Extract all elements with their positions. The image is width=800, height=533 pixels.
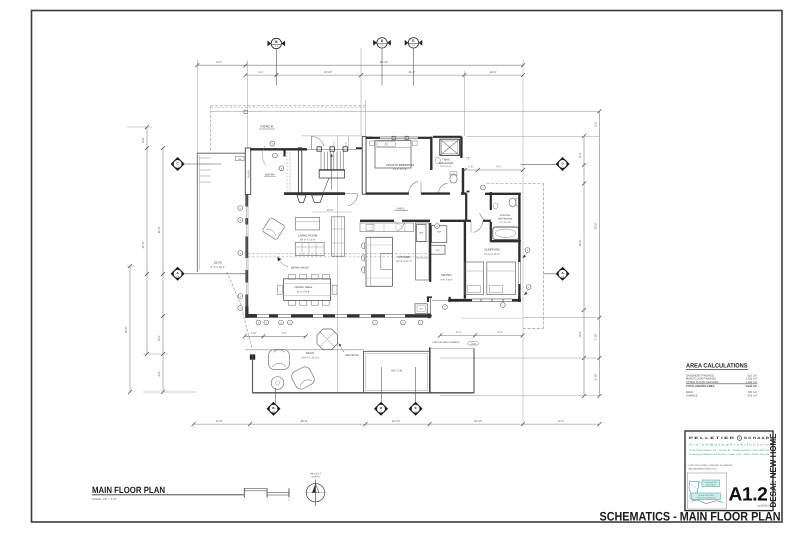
svg-text:2'-6": 2'-6" [468, 166, 473, 169]
hall door arcs [397, 221, 404, 231]
right extension horizontals [467, 135, 599, 137]
section line x337 [336, 135, 338, 393]
deck bottom edge [253, 392, 475, 394]
beams above note [279, 260, 289, 268]
spa octagon [317, 329, 338, 350]
stamp box with washington map [688, 473, 727, 509]
svg-text:29'-8": 29'-8" [301, 420, 308, 423]
svg-text:18'-0" X 13'-0": 18'-0" X 13'-0" [300, 239, 316, 242]
svg-text:PROJECT: PROJECT [310, 472, 321, 475]
svg-text:PANTRY: PANTRY [441, 274, 452, 277]
bath sink [493, 203, 498, 209]
svg-text:7'-0" X 5'-10": 7'-0" X 5'-10" [499, 221, 511, 224]
corridor west wall [465, 194, 467, 221]
left extension stubs [127, 126, 152, 128]
svg-text:3,094 S.F.: 3,094 S.F. [745, 385, 757, 388]
grid bubble C left [171, 157, 185, 171]
svg-text:40'-10": 40'-10" [380, 61, 388, 64]
third bathroom door arc [438, 183, 447, 193]
bottom dimension line [194, 423, 600, 425]
svg-text:LIVING ROOM: LIVING ROOM [298, 233, 318, 237]
svg-text:14'-10": 14'-10" [392, 420, 400, 423]
grid bubble E bottom [415, 367, 417, 403]
south dim string left [245, 335, 306, 337]
grid bubble E top [413, 48, 415, 86]
beams above dashed pair [248, 253, 430, 255]
fourth bedroom north wall [366, 137, 380, 139]
stacked washer dryer [415, 304, 427, 314]
svg-text:2'-2": 2'-2" [333, 141, 336, 146]
sunroom upper dim line [465, 169, 523, 171]
svg-text:W-10: W-10 [471, 342, 475, 345]
svg-text:19'-6": 19'-6" [490, 71, 497, 74]
kitchen counter strip [416, 223, 429, 280]
top dimension line 1 [197, 64, 523, 66]
svg-text:4'-10": 4'-10" [595, 374, 598, 381]
svg-text:HOT TUB: HOT TUB [391, 369, 403, 372]
stair south wall [284, 192, 345, 195]
pantry door jamb and leaf [427, 297, 429, 302]
grid bubble B bottom [275, 388, 277, 403]
svg-text:1,292 S.F.: 1,292 S.F. [745, 381, 757, 384]
kitchen north counter band [360, 223, 414, 232]
living room sofa upper [295, 218, 319, 230]
svg-text:DESAI: NEW HOME: DESAI: NEW HOME [768, 433, 778, 507]
entry door arc [311, 136, 313, 149]
sunroom beds [465, 262, 484, 295]
dining table [284, 279, 331, 301]
svg-text:BATHROOM: BATHROOM [498, 218, 512, 221]
svg-text:14'-4" X 5'-8": 14'-4" X 5'-8" [297, 290, 310, 293]
svg-text:4'-6": 4'-6" [158, 371, 161, 376]
svg-text:MAIN FLOOR PLAN: MAIN FLOOR PLAN [92, 485, 165, 495]
svg-text:2.1: 2.1 [380, 410, 382, 413]
svg-text:KITCHEN: KITCHEN [398, 255, 411, 259]
left lower dimension x163 [162, 354, 164, 392]
svg-text:20'-8": 20'-8" [595, 223, 598, 230]
svg-text:PORCH: PORCH [260, 125, 273, 129]
hall south wall segments [360, 220, 394, 222]
svg-text:9'-2": 9'-2" [497, 166, 502, 169]
svg-text:FOURTH BEDROOM: FOURTH BEDROOM [386, 163, 414, 167]
tag circles sunroom area [443, 305, 448, 310]
third bathroom toilet [450, 174, 457, 183]
svg-text:GARAGE: GARAGE [686, 394, 698, 397]
svg-text:HALL: HALL [397, 206, 406, 210]
stair west wall [298, 148, 301, 194]
svg-text:(29'-4" X 19'-4"): (29'-4" X 19'-4") [301, 357, 319, 360]
porch step tag [236, 156, 245, 161]
top dimension line 2 [246, 74, 524, 76]
svg-text:SPA ABOVE: SPA ABOVE [345, 354, 359, 357]
stair run arrow [331, 155, 333, 190]
hot tub box [364, 351, 430, 393]
entry west wall / foyer [245, 148, 250, 195]
svg-text:DECK: DECK [306, 351, 314, 355]
south wall window tags [256, 320, 261, 325]
svg-text:SCALE: 1/8" = 1'-0": SCALE: 1/8" = 1'-0" [92, 497, 116, 501]
svg-text:BATHROOM: BATHROOM [439, 162, 453, 165]
svg-text:V i s i o n B a s e d A r: V i s i o n B a s e d A r c h i t e c t … [689, 443, 770, 447]
right dimension line x584 [583, 136, 585, 396]
stair east wall / bedroom west wall [362, 137, 366, 195]
stair handrail [320, 170, 346, 172]
deck armchair 2 [290, 365, 317, 391]
svg-text:16'-8": 16'-8" [579, 240, 582, 247]
sunroom dim line [440, 335, 523, 337]
kitchen fridge [417, 225, 427, 242]
svg-text:12'-2": 12'-2" [558, 420, 565, 423]
deck corner post [250, 355, 255, 360]
sunroom north walls [485, 193, 521, 195]
svg-text:2.1: 2.1 [561, 165, 563, 168]
grid bubble A left [171, 267, 185, 281]
svg-text:8'-6" X 5'-6": 8'-6" X 5'-6" [440, 165, 452, 168]
svg-text:NORTH: NORTH [311, 475, 319, 478]
svg-text:E: E [415, 406, 417, 410]
deck top boundary line [245, 349, 364, 351]
svg-text:8'-0": 8'-0" [158, 335, 161, 340]
fourth bedroom east wall [430, 137, 432, 170]
svg-text:6'-0": 6'-0" [579, 331, 582, 336]
svg-text:SUNROOM: SUNROOM [484, 248, 500, 252]
west wall window tags [238, 206, 243, 211]
svg-text:1'-10": 1'-10" [250, 332, 256, 335]
bath south wall [433, 192, 450, 194]
tag circle sunroom east [525, 248, 530, 253]
grid bubble A right [556, 267, 570, 281]
svg-text:2.1: 2.1 [561, 275, 563, 278]
svg-text:14'-2": 14'-2" [125, 327, 128, 334]
entry north wall [250, 148, 307, 150]
tag hall [435, 224, 440, 229]
top extension line y111 [211, 110, 599, 112]
stamp signature squiggle [692, 500, 723, 503]
tag circle bath corridor [481, 185, 486, 190]
kitchen island stools [361, 243, 364, 249]
svg-text:16: 16 [288, 498, 290, 501]
deck round table [271, 377, 284, 390]
third bathroom shower [440, 139, 460, 155]
stair treads [320, 152, 322, 171]
left dimension line x163 [162, 148, 164, 354]
svg-text:SCHEMATICS - MAIN FLOOR PLAN: SCHEMATICS - MAIN FLOOR PLAN [600, 509, 781, 523]
svg-text:21'-2": 21'-2" [409, 71, 416, 74]
porch posts on colonnade [307, 148, 356, 150]
svg-text:2.1: 2.1 [176, 165, 178, 168]
svg-text:2.1: 2.1 [176, 275, 178, 278]
svg-text:DINING TABLE: DINING TABLE [295, 286, 313, 289]
svg-text:UPPER FLOOR FINISHED: UPPER FLOOR FINISHED [686, 381, 719, 384]
graphic scale bar [244, 488, 267, 490]
extension line x523 [522, 60, 524, 424]
media unit [331, 217, 344, 256]
grid bubble D right [556, 157, 570, 171]
fourth bathroom tub [493, 227, 519, 240]
sunroom east wall [518, 194, 520, 262]
svg-text:16'-9": 16'-9" [327, 209, 334, 212]
svg-text:3'-0": 3'-0" [595, 121, 598, 126]
corridor east wall / bath west wall [490, 192, 492, 210]
svg-text:23'-10": 23'-10" [324, 71, 332, 74]
svg-text:0: 0 [244, 498, 245, 501]
svg-text:www pelletierschaar com ph:: www pelletierschaar com ph: 360.526.2575 [689, 453, 770, 456]
svg-text:7'-6": 7'-6" [282, 332, 287, 335]
svg-text:4164 Meridian St., Suite B - B: 4164 Meridian St., Suite B - Bellingham,… [689, 449, 770, 452]
svg-text:LINE OF WALLS ABOVE: LINE OF WALLS ABOVE [433, 341, 460, 344]
svg-text:ENTRY: ENTRY [265, 173, 275, 177]
svg-text:AREA CALCULATIONS: AREA CALCULATIONS [686, 363, 748, 370]
stair landing [319, 170, 344, 178]
svg-text:S C H A A R: S C H A A R [744, 436, 770, 440]
grid bubble D bottom [381, 367, 383, 403]
fourth bedroom south wall [366, 192, 409, 194]
svg-text:13'-4" X 9'-8": 13'-4" X 9'-8" [393, 168, 408, 171]
grid bubble B top [275, 49, 277, 86]
left dimension line x147 [146, 127, 148, 354]
svg-text:2.1: 2.1 [272, 410, 274, 413]
dining chairs [288, 275, 295, 280]
grid bubble D top [381, 48, 383, 86]
svg-text:8: 8 [267, 498, 268, 501]
svg-text:9'-4" X 28'-4": 9'-4" X 28'-4" [211, 266, 226, 269]
svg-text:A1.2: A1.2 [729, 485, 768, 506]
stairs dashed above [286, 152, 288, 192]
deck east edge [473, 349, 475, 393]
west exterior wall [245, 194, 248, 207]
kitchen island [366, 237, 392, 286]
south wall corner jamb [428, 313, 431, 318]
svg-text:16'-3" X 11'-4": 16'-3" X 11'-4" [396, 260, 412, 263]
svg-text:10'-8": 10'-8" [216, 420, 223, 423]
svg-text:552 S.F.: 552 S.F. [748, 394, 758, 397]
svg-text:32'-0": 32'-0" [158, 227, 161, 234]
svg-text:ANTON PELLETIER: ANTON PELLETIER [698, 494, 714, 497]
svg-text:9'-9": 9'-9" [497, 331, 502, 334]
deck side steps [200, 157, 211, 159]
svg-text:THIS DRAWING: SHEET A1.2: THIS DRAWING: SHEET A1.2 [688, 467, 718, 470]
svg-text:19'-10": 19'-10" [474, 420, 482, 423]
stair south wall battered posts [297, 195, 306, 203]
svg-text:2.1: 2.1 [414, 410, 416, 413]
living room sectional [295, 242, 324, 255]
svg-text:BEAMS ABOVE: BEAMS ABOVE [291, 266, 309, 269]
svg-text:WASHINGTON: WASHINGTON [705, 481, 717, 484]
entry tag circles [270, 141, 275, 146]
svg-text:5'-2": 5'-2" [344, 142, 347, 147]
kitchen-pantry wall [429, 223, 431, 282]
svg-text:8'-1": 8'-1" [456, 331, 461, 334]
deck armchair 1 [269, 350, 290, 370]
fourth bedroom bed [375, 141, 411, 169]
svg-text:© 2022 PELLETIER + SCHAAR, ALL: © 2022 PELLETIER + SCHAAR, ALL RIGHTS [688, 464, 733, 467]
left dimension line x130 [129, 266, 131, 392]
svg-text:8'-2": 8'-2" [579, 152, 582, 157]
fourth bedroom door arc [409, 182, 418, 194]
stair-hall door arc [345, 193, 358, 195]
svg-text:9'-2": 9'-2" [258, 71, 263, 74]
deck west edge [196, 153, 198, 272]
title block box [685, 431, 773, 511]
sunroom west wall [464, 221, 466, 299]
svg-text:ARCHITECT: ARCHITECT [706, 484, 716, 487]
wall ovens [432, 226, 447, 243]
southwest corner [245, 307, 256, 318]
svg-text:FOYER: FOYER [247, 170, 250, 179]
south wall extension stub [461, 317, 523, 319]
bedroom nightstand [370, 141, 375, 146]
svg-text:37'-0": 37'-0" [142, 242, 145, 249]
extension line x361 [360, 48, 362, 136]
svg-text:P E L L E T I E R: P E L L E T I E R [689, 436, 735, 440]
svg-text:TOTAL HEATED AREA: TOTAL HEATED AREA [686, 385, 715, 388]
third bathroom east wall [460, 137, 462, 158]
porch roof dashed outline [211, 105, 366, 107]
extension line x247 [246, 60, 248, 148]
svg-text:5'-0" X 6'-2": 5'-0" X 6'-2" [441, 279, 453, 282]
extension line x464 [463, 71, 465, 136]
south exterior wall [246, 313, 432, 315]
svg-text:DECK: DECK [214, 261, 222, 265]
svg-text:7'-10": 7'-10" [595, 334, 598, 341]
roof overhang dashed right [487, 183, 544, 185]
third bathroom sink [435, 157, 440, 163]
fourth bathroom south wall [491, 240, 521, 242]
svg-text:9'-8": 9'-8" [142, 137, 145, 142]
deck edge dashed diagonal [227, 272, 241, 304]
upper floor edge line above stairs [302, 135, 361, 137]
extension line x197 [196, 60, 198, 153]
right dimension line x599 [598, 111, 600, 396]
sunroom south wall [448, 299, 472, 302]
svg-text:9'-0": 9'-0" [216, 61, 221, 64]
deck west lower edge [252, 355, 254, 393]
svg-text:14'-6" X 10'-6": 14'-6" X 10'-6" [484, 253, 500, 256]
living room armchair rotated [262, 217, 285, 240]
fourth bathroom toilet [509, 198, 516, 207]
